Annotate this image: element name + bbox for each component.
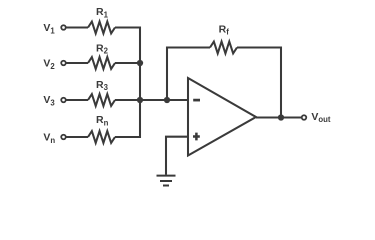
- op-amp non-inverting pin mark (+): [193, 133, 200, 141]
- wire V3 to R3: [66, 99, 88, 101]
- wire op-amp output: [256, 116, 301, 118]
- junction inverting node: [164, 97, 170, 103]
- wire Vn to Rn: [66, 136, 88, 138]
- svg-text:V3: V3: [43, 94, 55, 107]
- wire bus V3 to Vn (corner left): [115, 100, 140, 137]
- svg-text:Rn: Rn: [96, 114, 109, 127]
- svg-text:Rf: Rf: [219, 23, 230, 36]
- terminal Vn: [61, 135, 66, 140]
- svg-text:R2: R2: [96, 42, 109, 55]
- wire R1 to bus (corner down): [115, 28, 140, 64]
- junction bus/V3: [137, 97, 143, 103]
- svg-text:Vout: Vout: [311, 111, 331, 124]
- wire V2 to R2: [66, 62, 88, 64]
- op-amp inverting pin mark (-): [193, 99, 200, 102]
- ground: [157, 176, 176, 186]
- resistor Rn: [88, 131, 115, 143]
- resistor R3: [88, 94, 115, 106]
- svg-text:V2: V2: [43, 58, 55, 71]
- terminal V2: [61, 61, 66, 66]
- resistor R1: [88, 22, 115, 34]
- wire V1 to R1: [66, 26, 88, 28]
- wire Rf down to output node: [237, 48, 281, 118]
- wire feedback up from inverting node: [167, 48, 210, 101]
- svg-text:R1: R1: [96, 6, 109, 19]
- junction output node: [278, 114, 284, 120]
- resistor R2: [88, 57, 115, 69]
- wire non-inverting input to ground: [166, 137, 188, 175]
- wire bus V2 to V3: [139, 63, 141, 100]
- wire R3 to op-amp inverting input: [115, 99, 188, 101]
- terminal Vout: [302, 115, 307, 120]
- wire R2 to bus: [115, 62, 140, 64]
- junction bus/V2: [137, 60, 143, 66]
- svg-text:Vn: Vn: [43, 132, 55, 145]
- svg-text:V1: V1: [43, 22, 55, 35]
- resistor Rf: [210, 42, 237, 54]
- op-amp U1: [188, 78, 256, 156]
- terminal V3: [61, 98, 66, 103]
- svg-text:R3: R3: [96, 79, 109, 92]
- terminal V1: [61, 25, 66, 30]
